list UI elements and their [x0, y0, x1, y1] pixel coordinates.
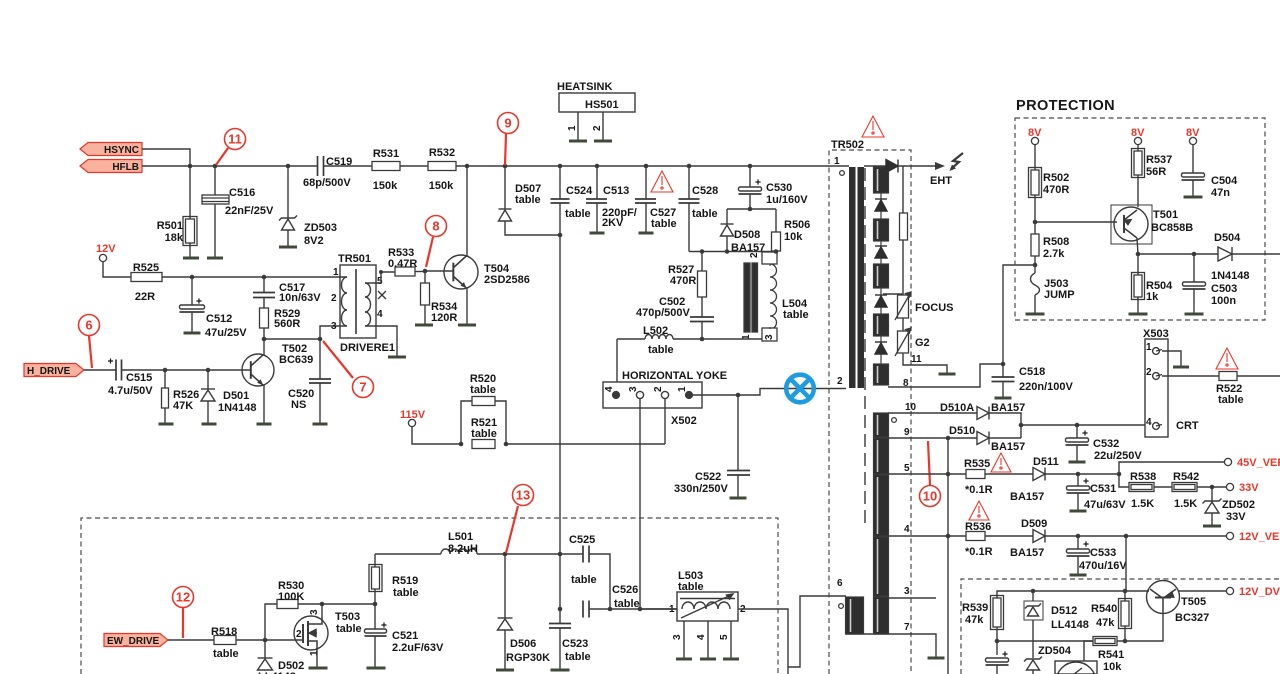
label TR502 pin1 — [834, 156, 840, 167]
ground L503 p4 — [700, 658, 716, 661]
svg-text:R531: R531 — [373, 148, 399, 160]
svg-text:47k: 47k — [965, 614, 984, 626]
wire 45V branch — [1119, 462, 1224, 474]
svg-text:table: table — [614, 598, 640, 610]
wire yoke pin2 down — [664, 398, 666, 444]
transistor T504 — [444, 255, 478, 289]
ground ZD503 — [279, 246, 297, 249]
terminal 12V — [99, 254, 106, 261]
label pin11 — [911, 354, 922, 365]
diode D509 — [1033, 530, 1045, 543]
svg-text:470R: 470R — [670, 275, 696, 287]
diode ZD503 — [279, 216, 297, 231]
svg-text:10: 10 — [905, 402, 917, 413]
ground pin7 — [928, 657, 945, 660]
ground X503 pin1 — [1173, 366, 1189, 369]
wire R534 top — [424, 271, 426, 283]
svg-text:HFLB: HFLB — [112, 162, 139, 173]
node pin5 corner — [379, 270, 383, 274]
wire C530 bottom — [749, 194, 751, 209]
svg-text:470p/500V: 470p/500V — [636, 307, 690, 319]
svg-text:table: table — [783, 309, 809, 321]
svg-text:C504: C504 — [1211, 175, 1238, 187]
node C522 node — [736, 393, 741, 398]
EHT arrowhead — [935, 162, 945, 170]
svg-text:NS: NS — [291, 399, 306, 411]
wire D508 top — [726, 209, 728, 224]
vertical section dashed box — [961, 579, 1280, 674]
wire 8V b feed — [1137, 145, 1139, 151]
svg-text:C532: C532 — [1093, 438, 1119, 450]
svg-text:1N4148: 1N4148 — [218, 402, 257, 414]
wire HSYNC to bus — [142, 149, 190, 166]
ground C527 — [639, 232, 654, 235]
svg-text:11: 11 — [228, 132, 242, 147]
svg-text:22R: 22R — [135, 291, 155, 303]
svg-text:table: table — [565, 208, 591, 220]
svg-text:D509: D509 — [1021, 518, 1047, 530]
capacitor C522 — [727, 471, 750, 476]
svg-text:T503: T503 — [335, 611, 360, 623]
svg-text:R538: R538 — [1130, 471, 1156, 483]
wire R538-R542 — [1154, 486, 1172, 488]
svg-text:C515: C515 — [126, 372, 152, 384]
wire R518 out — [236, 639, 303, 641]
wire C527 top — [645, 166, 647, 199]
wire pin6 wire — [788, 596, 846, 667]
ground C531 — [1070, 510, 1087, 513]
ground R526 — [159, 423, 174, 426]
transistor T503 (MOSFET) — [294, 616, 328, 650]
node D506 node — [503, 552, 508, 557]
diode D512 — [1025, 604, 1041, 617]
jumper J503 — [1031, 273, 1040, 295]
svg-text:4.7u/50V: 4.7u/50V — [108, 385, 153, 397]
svg-text:100n: 100n — [1211, 295, 1236, 307]
svg-text:150k: 150k — [429, 180, 454, 192]
ground C513 — [590, 232, 605, 235]
wire D507 bottom — [505, 221, 560, 235]
node gate node — [263, 638, 268, 643]
inductor L503 — [677, 592, 738, 658]
resistor R501 — [183, 217, 197, 246]
node R527 node — [700, 249, 705, 254]
svg-text:1: 1 — [834, 156, 840, 167]
svg-text:6: 6 — [85, 318, 92, 333]
label TR502 pin6 — [837, 578, 843, 589]
wire C520 line — [319, 339, 321, 379]
wire C516 top — [214, 166, 216, 195]
wire C521 bottom — [374, 636, 376, 668]
svg-text:1: 1 — [567, 125, 578, 131]
svg-text:47u/25V: 47u/25V — [205, 327, 247, 339]
wire D501 top — [207, 370, 209, 389]
TR502 LV secondary winding — [874, 413, 889, 634]
svg-text:T505: T505 — [1181, 596, 1206, 608]
ground C520 — [313, 423, 328, 426]
TR502 pin6 winding — [846, 597, 864, 634]
callout 13 — [506, 485, 534, 554]
wire C531 bottom — [1077, 493, 1079, 511]
wire yoke pin4 up — [616, 339, 618, 382]
label TR502 pin3 — [904, 586, 910, 597]
node bus J10 — [748, 164, 753, 169]
svg-text:BC858B: BC858B — [1151, 222, 1193, 234]
svg-text:BA157: BA157 — [991, 441, 1025, 453]
wire R542 out — [1197, 486, 1226, 488]
svg-text:TR502: TR502 — [831, 139, 864, 151]
wire 115V rail to yoke2 — [506, 443, 665, 445]
wire C512 top — [191, 277, 193, 305]
wire pin8 wire — [888, 364, 1003, 387]
wire ZD504 below — [1032, 670, 1034, 674]
wire R504 bottom — [1137, 297, 1139, 314]
diode D510A — [977, 407, 989, 420]
svg-text:R518: R518 — [211, 626, 237, 638]
svg-text:FOCUS: FOCUS — [915, 302, 954, 314]
capacitor C524 — [551, 199, 570, 203]
capacitor C531 — [1067, 486, 1090, 493]
node D508 node — [725, 249, 730, 254]
svg-text:33V: 33V — [1226, 511, 1246, 523]
terminal 115V — [408, 419, 415, 426]
wire R534 bottom — [424, 305, 426, 325]
wire R529 bottom — [263, 328, 265, 339]
node T501 base node — [1033, 220, 1038, 225]
resistor R521 — [472, 440, 495, 449]
svg-text:10n/63V: 10n/63V — [279, 292, 321, 304]
svg-text:8V2: 8V2 — [304, 235, 324, 247]
svg-text:G2: G2 — [915, 337, 930, 349]
svg-text:ZD504: ZD504 — [1038, 645, 1072, 657]
label TR502 pin8 — [903, 378, 909, 389]
net symbol blue X — [786, 375, 814, 403]
node C502 node — [700, 337, 705, 342]
ground TR501 pin4 — [388, 356, 406, 359]
diode D511 — [1033, 468, 1045, 481]
svg-text:3: 3 — [764, 334, 775, 340]
resistor R532 — [428, 162, 456, 171]
wire pin5 to R533 — [376, 272, 395, 283]
capacitor C526 — [583, 601, 589, 618]
wire T501 coll — [1137, 238, 1138, 254]
TR502 core dashed line — [864, 168, 866, 525]
warning triangle above R536 — [969, 501, 989, 520]
svg-text:D510: D510 — [949, 425, 975, 437]
capacitor C530 — [739, 187, 762, 194]
resistor R522 — [1219, 372, 1237, 381]
svg-text:10k: 10k — [784, 231, 803, 243]
resistor R535 — [966, 470, 985, 479]
svg-text:R506: R506 — [784, 219, 810, 231]
wire R504 top — [1137, 254, 1139, 275]
svg-text:C518: C518 — [1019, 366, 1045, 378]
svg-text:table: table — [393, 587, 419, 599]
TR502 phase dot pin6 — [839, 604, 844, 609]
wire C527 bottom — [645, 203, 647, 233]
svg-text:X502: X502 — [671, 415, 697, 427]
wire R508 out — [1034, 256, 1036, 273]
label 115V — [400, 409, 426, 421]
node C512 — [190, 275, 195, 280]
diode HV rectifier 4 — [875, 342, 887, 354]
svg-text:12: 12 — [176, 590, 190, 605]
svg-text:4: 4 — [377, 309, 383, 320]
svg-text:C526: C526 — [612, 584, 638, 596]
node bus J6 — [558, 164, 563, 169]
node C525 node — [558, 552, 563, 557]
svg-text:D512: D512 — [1051, 605, 1077, 617]
svg-text:2: 2 — [749, 252, 760, 258]
diode D501 — [201, 389, 215, 401]
label 12V — [96, 243, 116, 255]
svg-text:HSYNC: HSYNC — [104, 145, 139, 156]
node R519 node — [373, 602, 378, 607]
wire D506 bottom — [504, 630, 506, 670]
svg-text:2KV: 2KV — [602, 217, 624, 229]
wire 8V c feed — [1192, 145, 1194, 173]
svg-text:2: 2 — [592, 125, 603, 131]
resistor R519 — [369, 565, 382, 592]
svg-text:D506: D506 — [510, 638, 536, 650]
svg-text:4: 4 — [904, 524, 910, 535]
resistor R529 — [260, 308, 269, 328]
svg-text:D511: D511 — [1033, 456, 1059, 468]
svg-text:BA157: BA157 — [1010, 491, 1044, 503]
warning triangle above TR502 — [862, 116, 884, 137]
node bus J3 — [286, 164, 291, 169]
warning triangle above R535 — [991, 453, 1011, 472]
wire C524 top — [559, 166, 561, 199]
label TR502 pin4 — [904, 524, 910, 535]
wire HDRIVE-C515 — [84, 369, 116, 371]
resistor R537 — [1132, 149, 1145, 178]
callout 10 — [920, 441, 941, 507]
TR502 phase dot primary — [840, 171, 845, 176]
wire C526 right — [589, 608, 677, 610]
wire C533 bottom — [1077, 556, 1079, 574]
ground J503 — [1026, 313, 1045, 316]
diode HV rectifier 2 — [875, 246, 887, 258]
svg-text:C522: C522 — [695, 471, 721, 483]
wire C522 bottom — [737, 475, 739, 498]
wire C517-R529 — [263, 298, 265, 309]
resistor R533 — [395, 267, 415, 276]
resistor bleeder — [900, 213, 908, 240]
svg-text:D508: D508 — [734, 229, 760, 241]
svg-text:330n/250V: 330n/250V — [674, 483, 728, 495]
svg-text:22u/250V: 22u/250V — [1094, 450, 1142, 462]
svg-text:BC639: BC639 — [279, 354, 313, 366]
wire pin4 gnd — [376, 326, 397, 356]
wire R527-C502 — [701, 297, 703, 317]
wire prot out rail — [1138, 253, 1218, 255]
wire R520 right — [495, 401, 506, 444]
resistor R539 — [991, 596, 1004, 630]
wire T503 drain — [321, 604, 323, 617]
node C518 node — [1001, 362, 1006, 367]
resistor R536 — [966, 532, 985, 541]
svg-text:8: 8 — [432, 219, 439, 234]
svg-text:2.7k: 2.7k — [1043, 248, 1065, 260]
diode ZD502 — [1203, 499, 1222, 514]
wire pin7 wire — [846, 634, 936, 657]
connector X502 HORIZONTAL YOKE — [603, 382, 702, 408]
resistor R504 — [1132, 273, 1145, 300]
connector X503 — [1145, 339, 1168, 437]
resistor R508 — [1031, 234, 1039, 256]
wire focus chain top — [902, 166, 904, 213]
svg-text:12V: 12V — [96, 243, 116, 255]
wire C532 top — [1076, 425, 1078, 438]
svg-text:560R: 560R — [274, 318, 300, 330]
svg-text:C521: C521 — [392, 630, 418, 642]
wire pin3 rail — [264, 326, 340, 339]
wire T505 out — [1179, 590, 1226, 592]
node 33V node — [1210, 485, 1215, 490]
wire C518 up to J503 — [1003, 265, 1034, 364]
svg-text:C516: C516 — [229, 187, 255, 199]
terminal 33V — [1226, 483, 1233, 490]
node T502 coll node — [262, 337, 267, 342]
node C517 — [262, 275, 267, 280]
svg-text:9: 9 — [504, 116, 511, 131]
wire R540 top — [1124, 591, 1126, 601]
label TR502 pin7 — [904, 622, 910, 633]
node C530 node — [748, 207, 753, 212]
svg-text:R540: R540 — [1091, 603, 1117, 615]
svg-text:EHT: EHT — [930, 175, 952, 187]
svg-text:C523: C523 — [562, 638, 588, 650]
resistor R526 — [162, 388, 169, 408]
svg-text:BC327: BC327 — [1175, 612, 1209, 624]
wire focus-g2 — [902, 318, 904, 331]
svg-text:JUMP: JUMP — [1044, 289, 1075, 301]
wire D510A out — [989, 413, 1021, 438]
resistor R531 — [372, 162, 400, 171]
svg-text:L501: L501 — [448, 531, 473, 543]
diode HV rectifier 3 — [875, 295, 887, 307]
label PROTECTION title — [1016, 98, 1115, 114]
node bus J9 — [687, 164, 692, 169]
wire C523 bottom — [559, 628, 561, 670]
wire D504 out — [1232, 253, 1280, 255]
wire C518 mid — [1002, 364, 1004, 377]
wire D506 top — [504, 554, 506, 618]
svg-text:table: table — [336, 623, 362, 635]
diode D507 — [499, 209, 512, 221]
node drain node — [320, 602, 325, 607]
wire T503 source — [316, 648, 318, 668]
wire T504 collector — [466, 166, 468, 256]
wire L502 to L504 — [673, 338, 762, 340]
svg-text:2: 2 — [1146, 367, 1152, 378]
wire R520 branch — [461, 401, 472, 444]
transformer TR501 — [340, 265, 386, 338]
node R521 right — [504, 442, 509, 447]
wire L501 rail b — [477, 553, 583, 555]
svg-text:HORIZONTAL YOKE: HORIZONTAL YOKE — [622, 370, 727, 382]
svg-text:12V_DVI: 12V_DVI — [1239, 586, 1280, 598]
svg-text:150k: 150k — [373, 180, 398, 192]
svg-text:1: 1 — [309, 650, 320, 656]
node bus J2 — [213, 164, 218, 169]
wire focus chain mid — [902, 240, 904, 295]
svg-text:470u/16V: 470u/16V — [1079, 560, 1127, 572]
ground C516 — [207, 257, 223, 260]
wire ZD502 top — [1211, 487, 1213, 501]
wire ZD503 top — [287, 166, 289, 218]
svg-text:11: 11 — [911, 354, 922, 365]
wire C517 top — [263, 277, 265, 292]
svg-text:6: 6 — [837, 578, 843, 589]
ground C521 — [367, 667, 386, 670]
wire stack top stub — [880, 166, 882, 169]
transistor T501 (PNP, boxed) — [1111, 205, 1152, 244]
svg-text:R525: R525 — [133, 262, 159, 274]
ground R501 — [183, 257, 199, 260]
wire C504 bottom — [1192, 180, 1194, 196]
node J503 node — [1033, 263, 1038, 268]
svg-text:3: 3 — [331, 321, 337, 332]
resistor R525 — [131, 273, 162, 282]
terminal 12V_DVI — [1226, 587, 1233, 594]
svg-text:1.5K: 1.5K — [1131, 498, 1154, 510]
wire R530 out rail — [298, 603, 375, 605]
ground R534 — [415, 324, 433, 327]
wire C520 bottom — [319, 383, 321, 424]
wire C521 top — [374, 604, 376, 629]
svg-text:12V_VER: 12V_VER — [1239, 531, 1280, 543]
capacitor C518 — [992, 377, 1015, 382]
wire C513 top — [596, 166, 598, 199]
svg-text:D504: D504 — [1214, 232, 1241, 244]
warning triangle above R522 — [1216, 348, 1238, 369]
svg-text:EW_DRIVE: EW_DRIVE — [107, 636, 160, 647]
svg-text:HS501: HS501 — [585, 99, 619, 111]
svg-text:LL4148: LL4148 — [1051, 619, 1089, 631]
wire R541 right — [1117, 614, 1163, 641]
capacitor C504 — [1182, 173, 1205, 180]
transformer TR502 dashed box — [829, 150, 911, 674]
svg-text:C525: C525 — [569, 534, 595, 546]
svg-text:C531: C531 — [1090, 483, 1116, 495]
wire EHT line — [864, 165, 886, 167]
svg-text:table: table — [471, 428, 497, 440]
svg-text:R539: R539 — [962, 602, 988, 614]
wire C522 top — [737, 395, 739, 470]
terminal 8V c — [1189, 137, 1196, 144]
wire Cxxx below — [996, 665, 998, 674]
wire 8V a feed — [1034, 145, 1036, 170]
svg-text:18k: 18k — [165, 232, 184, 244]
capacitor C503 — [1183, 282, 1206, 289]
ground D506 — [496, 669, 514, 672]
wire g2 to gnd — [903, 353, 947, 373]
svg-text:1: 1 — [677, 386, 688, 392]
svg-text:2: 2 — [331, 293, 337, 304]
ground C522 — [730, 497, 747, 500]
capacitor C502 — [690, 317, 714, 322]
svg-text:68p/500V: 68p/500V — [303, 177, 351, 189]
callout 12 — [173, 587, 194, 639]
wire R501 bottom — [189, 243, 191, 258]
label 8V b — [1131, 127, 1145, 139]
callout 11 — [216, 129, 246, 166]
ground C512 — [184, 332, 201, 335]
inductor L502 — [645, 335, 673, 340]
capacitor C519 — [318, 156, 324, 176]
